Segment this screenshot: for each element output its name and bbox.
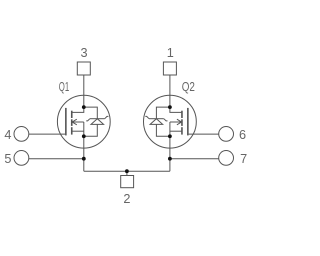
svg-text:7: 7 <box>240 152 247 166</box>
svg-text:1: 1 <box>167 46 174 60</box>
svg-text:Q1: Q1 <box>59 80 69 94</box>
svg-text:5: 5 <box>4 152 11 166</box>
svg-text:6: 6 <box>239 128 246 142</box>
svg-text:3: 3 <box>80 46 87 60</box>
svg-text:2: 2 <box>123 192 130 206</box>
svg-text:4: 4 <box>4 128 11 142</box>
svg-text:Q2: Q2 <box>182 80 195 94</box>
